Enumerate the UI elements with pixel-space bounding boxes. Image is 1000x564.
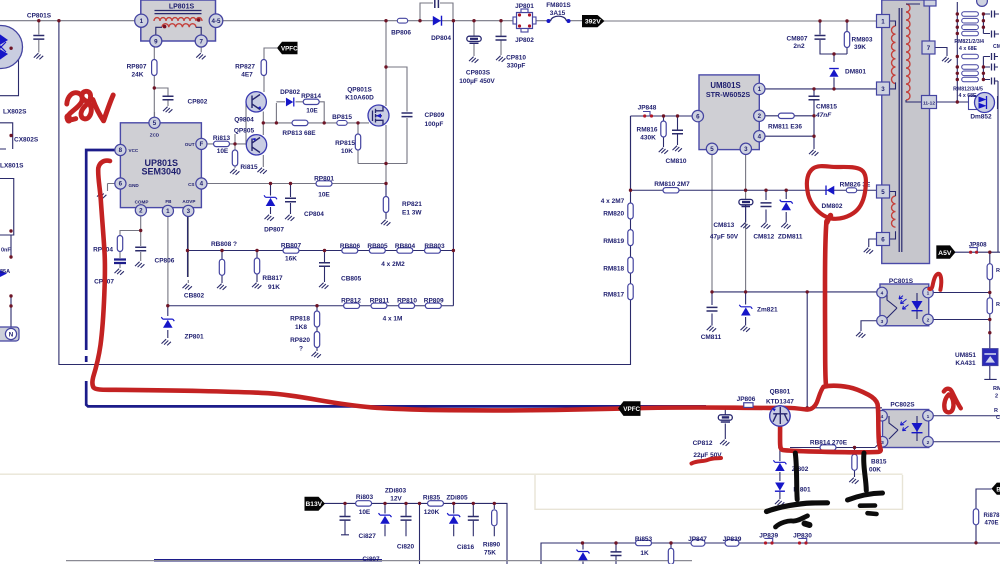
svg-text:6: 6	[696, 113, 700, 120]
svg-text:E1 3W: E1 3W	[402, 210, 422, 217]
svg-text:4: 4	[881, 291, 884, 297]
svg-text:RM818: RM818	[603, 266, 624, 273]
svg-text:RP821: RP821	[402, 201, 422, 208]
svg-text:CP801S: CP801S	[27, 13, 52, 20]
svg-text:Ri803: Ri803	[356, 494, 374, 501]
svg-text:100pF: 100pF	[425, 121, 444, 128]
svg-text:3: 3	[881, 319, 884, 325]
svg-text:35A: 35A	[0, 269, 10, 275]
svg-text:5: 5	[710, 146, 714, 153]
svg-text:4: 4	[881, 414, 884, 420]
svg-text:330pF: 330pF	[507, 63, 526, 70]
svg-text:470E: 470E	[985, 521, 999, 527]
svg-text:2n2: 2n2	[793, 43, 805, 50]
svg-text:3: 3	[744, 146, 748, 153]
svg-text:K10A60D: K10A60D	[345, 95, 374, 102]
svg-text:1: 1	[166, 208, 170, 215]
svg-text:RB806: RB806	[340, 243, 361, 250]
svg-text:JP839: JP839	[723, 536, 742, 543]
svg-text:RB807: RB807	[281, 243, 302, 250]
svg-text:RM811 E36: RM811 E36	[768, 124, 802, 131]
svg-text:F: F	[200, 141, 204, 148]
svg-text:CB805: CB805	[341, 276, 362, 283]
svg-text:RM812/3/4/5: RM812/3/4/5	[953, 87, 983, 93]
svg-text:Zm821: Zm821	[757, 307, 778, 314]
svg-text:RB808 ?: RB808 ?	[211, 241, 237, 248]
svg-text:7: 7	[927, 45, 931, 52]
svg-text:RP815: RP815	[335, 140, 355, 147]
svg-text:JP808: JP808	[969, 242, 987, 249]
svg-text:4-5: 4-5	[212, 18, 222, 25]
svg-text:CP802: CP802	[188, 99, 208, 106]
svg-text:RP827: RP827	[235, 64, 255, 71]
svg-text:430K: 430K	[640, 135, 656, 142]
svg-text:GND: GND	[129, 183, 140, 188]
svg-text:CM813: CM813	[713, 222, 734, 229]
svg-text:CM811: CM811	[701, 334, 722, 341]
svg-text:2: 2	[927, 318, 930, 324]
svg-text:AOVP: AOVP	[182, 199, 195, 204]
svg-text:UM851: UM851	[955, 352, 976, 359]
svg-text:BP815: BP815	[332, 114, 352, 121]
svg-text:4: 4	[758, 133, 762, 140]
svg-text:1K8: 1K8	[295, 324, 307, 331]
svg-text:RM803: RM803	[852, 37, 873, 44]
svg-text:Ri890: Ri890	[483, 542, 501, 549]
svg-text:Ri835: Ri835	[423, 495, 441, 502]
svg-text:CP810: CP810	[506, 55, 526, 62]
svg-text:91K: 91K	[268, 284, 280, 291]
svg-text:47nF: 47nF	[815, 112, 832, 119]
svg-text:KTD1347: KTD1347	[766, 399, 794, 406]
svg-text:RM810 2M7: RM810 2M7	[654, 181, 690, 188]
svg-text:5: 5	[153, 120, 157, 127]
svg-text:RB817: RB817	[262, 275, 283, 282]
svg-text:QP805: QP805	[234, 128, 255, 135]
svg-text:RM821/2/3/4: RM821/2/3/4	[954, 39, 984, 45]
svg-text:R: R	[996, 268, 1000, 274]
svg-text:R: R	[994, 408, 998, 414]
svg-text:CP803S: CP803S	[466, 70, 491, 77]
svg-text:Q9804: Q9804	[234, 117, 254, 124]
svg-text:A5V: A5V	[938, 250, 952, 257]
svg-text:RP814: RP814	[301, 93, 321, 100]
svg-text:10E: 10E	[318, 192, 330, 199]
svg-text:RP818: RP818	[290, 316, 310, 323]
svg-text:CM807: CM807	[787, 36, 808, 43]
svg-text:24K: 24K	[132, 72, 144, 79]
svg-text:DP804: DP804	[431, 35, 451, 42]
svg-text:R: R	[996, 302, 1000, 308]
svg-text:CP806: CP806	[155, 258, 175, 265]
svg-text:00K: 00K	[869, 467, 881, 474]
svg-text:ZDi803: ZDi803	[385, 488, 407, 495]
svg-text:2: 2	[995, 394, 998, 400]
svg-text:RP813 68E: RP813 68E	[282, 130, 316, 137]
svg-text:4 x 68E: 4 x 68E	[959, 46, 977, 52]
svg-text:Ci820: Ci820	[397, 544, 415, 551]
svg-text:2: 2	[139, 208, 143, 215]
svg-text:OUT: OUT	[185, 142, 195, 147]
svg-text:RB804: RB804	[395, 243, 416, 250]
svg-text:0nF: 0nF	[1, 248, 11, 254]
svg-text:LX801S: LX801S	[0, 163, 24, 170]
svg-text:Ri815: Ri815	[240, 164, 258, 171]
svg-text:100µF 450V: 100µF 450V	[459, 78, 495, 85]
svg-text:CP804: CP804	[304, 211, 324, 218]
svg-text:47µF 50V: 47µF 50V	[710, 234, 739, 241]
svg-text:16K: 16K	[285, 256, 297, 263]
svg-text:CP809: CP809	[425, 112, 445, 119]
svg-text:1: 1	[881, 19, 885, 26]
svg-text:10E: 10E	[217, 148, 229, 155]
svg-text:ZCD: ZCD	[150, 133, 160, 138]
svg-text:RB814 270E: RB814 270E	[810, 440, 848, 447]
svg-text:PC802S: PC802S	[890, 402, 915, 409]
svg-text:39K: 39K	[854, 44, 866, 51]
svg-text:JP806: JP806	[737, 396, 756, 403]
svg-text:4 x 2M7: 4 x 2M7	[601, 198, 625, 205]
svg-text:Ci827: Ci827	[359, 533, 377, 540]
svg-text:BP806: BP806	[391, 30, 411, 37]
svg-text:DM802: DM802	[822, 203, 843, 210]
svg-text:CM8: CM8	[993, 44, 1000, 50]
svg-text:4E7: 4E7	[241, 72, 253, 79]
svg-text:5: 5	[881, 189, 885, 196]
svg-text:RM816: RM816	[637, 127, 658, 134]
svg-text:1: 1	[927, 414, 930, 420]
svg-text:ZDi805: ZDi805	[446, 495, 468, 502]
svg-text:UM801S: UM801S	[710, 81, 740, 90]
svg-text:B13V: B13V	[306, 501, 323, 508]
svg-text:RP807: RP807	[127, 64, 147, 71]
svg-text:1: 1	[758, 86, 762, 93]
svg-text:3: 3	[187, 208, 191, 215]
svg-text:CX802S: CX802S	[14, 137, 39, 144]
svg-text:2: 2	[927, 440, 930, 446]
svg-text:RM820: RM820	[603, 211, 624, 218]
svg-text:B815: B815	[871, 459, 887, 466]
svg-text:JP848: JP848	[638, 105, 657, 112]
svg-text:FM801S: FM801S	[546, 2, 571, 9]
svg-text:2: 2	[758, 113, 762, 120]
svg-text:RP801: RP801	[314, 176, 334, 183]
svg-text:Ri878: Ri878	[984, 513, 1000, 519]
svg-text:C: C	[996, 415, 1000, 421]
svg-text:CS: CS	[188, 182, 194, 187]
svg-text:VCC: VCC	[129, 148, 139, 153]
svg-text:6: 6	[119, 181, 123, 188]
svg-text:RM: RM	[993, 386, 1000, 392]
svg-text:120K: 120K	[424, 509, 440, 516]
svg-text:RP820: RP820	[290, 337, 310, 344]
svg-text:10K: 10K	[341, 148, 353, 155]
svg-text:B: B	[996, 487, 1000, 493]
svg-text:RP811: RP811	[370, 298, 390, 305]
svg-text:4 x 2M2: 4 x 2M2	[381, 261, 405, 268]
svg-text:CB802: CB802	[184, 293, 205, 300]
svg-text:DP807: DP807	[264, 227, 284, 234]
svg-text:FB: FB	[165, 199, 172, 204]
svg-text:9: 9	[154, 38, 158, 45]
svg-text:3A15: 3A15	[550, 10, 566, 17]
svg-text:Dm852: Dm852	[970, 114, 992, 121]
svg-text:N: N	[9, 332, 14, 339]
svg-text:VPFC: VPFC	[623, 406, 640, 413]
svg-text:4 x 68E: 4 x 68E	[959, 93, 977, 99]
svg-text:4: 4	[200, 181, 204, 188]
svg-text:PC801S: PC801S	[889, 278, 914, 285]
svg-text:ZP801: ZP801	[185, 334, 205, 341]
svg-text:75K: 75K	[484, 550, 496, 557]
svg-text:QB801: QB801	[770, 388, 791, 395]
svg-text:392V: 392V	[585, 19, 601, 26]
svg-text:QP801S: QP801S	[347, 87, 372, 94]
svg-text:JP839: JP839	[759, 533, 778, 540]
svg-text:?: ?	[299, 346, 303, 353]
svg-text:1K: 1K	[640, 550, 649, 557]
svg-text:Ci816: Ci816	[457, 544, 475, 551]
svg-text:11-12: 11-12	[923, 101, 935, 107]
svg-text:CM815: CM815	[816, 104, 837, 111]
svg-text:COMP: COMP	[135, 200, 149, 205]
svg-text:7: 7	[199, 38, 203, 45]
svg-text:CM812: CM812	[753, 234, 774, 241]
svg-text:JP802: JP802	[515, 37, 534, 44]
svg-text:Ri853: Ri853	[635, 536, 653, 543]
svg-text:JP801: JP801	[515, 3, 534, 10]
svg-text:RP809: RP809	[424, 298, 444, 305]
svg-text:8: 8	[119, 147, 123, 154]
svg-text:1: 1	[140, 18, 144, 25]
svg-text:ZDM811: ZDM811	[778, 234, 803, 241]
svg-text:DP802: DP802	[280, 89, 300, 96]
svg-text:Ri813: Ri813	[213, 135, 231, 142]
svg-text:3: 3	[881, 86, 885, 93]
svg-text:RB803: RB803	[424, 243, 445, 250]
svg-text:LP801S: LP801S	[169, 3, 195, 10]
svg-text:DM801: DM801	[845, 69, 866, 76]
svg-text:LX802S: LX802S	[3, 109, 27, 116]
svg-text:CM810: CM810	[666, 158, 687, 165]
svg-text:10E: 10E	[306, 108, 318, 115]
svg-text:10E: 10E	[359, 509, 371, 516]
svg-text:12V: 12V	[390, 496, 402, 503]
svg-text:1: 1	[927, 291, 930, 297]
svg-text:RB805: RB805	[367, 243, 388, 250]
svg-text:CP812: CP812	[693, 440, 713, 447]
svg-text:Ci807: Ci807	[362, 556, 380, 563]
svg-text:RP812: RP812	[341, 298, 361, 305]
svg-text:JP830: JP830	[793, 533, 812, 540]
svg-text:SEM3040: SEM3040	[142, 167, 182, 177]
svg-text:STR-W6052S: STR-W6052S	[706, 90, 751, 99]
svg-text:RP810: RP810	[397, 298, 417, 305]
svg-text:RM819: RM819	[603, 238, 624, 245]
svg-text:VPFC: VPFC	[281, 46, 298, 53]
svg-text:6: 6	[881, 237, 885, 244]
svg-text:4 x 1M: 4 x 1M	[383, 316, 403, 323]
svg-text:RM817: RM817	[603, 292, 624, 299]
svg-text:JP847: JP847	[688, 536, 707, 543]
svg-text:KA431: KA431	[955, 360, 976, 367]
